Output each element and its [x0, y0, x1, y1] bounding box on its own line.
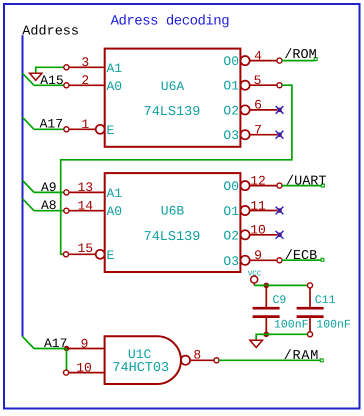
svg-text:9: 9 — [81, 336, 89, 351]
wire A8 — [34, 210, 64, 212]
svg-text:14: 14 — [77, 199, 93, 214]
svg-text:O2: O2 — [223, 228, 239, 243]
junction VCC C9 — [264, 283, 270, 289]
op-amp U6B body — [105, 173, 241, 272]
svg-text:15: 15 — [77, 241, 93, 256]
wire ground rail — [256, 334, 307, 340]
ground symbol GND2 — [250, 340, 263, 347]
svg-text:C9: C9 — [273, 294, 287, 307]
wire A15 — [34, 84, 64, 86]
svg-text:A17: A17 — [40, 116, 63, 131]
svg-text:A8: A8 — [41, 198, 57, 213]
svg-text:A0: A0 — [107, 204, 123, 219]
svg-text:/UART: /UART — [286, 174, 327, 189]
svg-text:E: E — [107, 123, 115, 138]
U6B pin 13 — [69, 191, 105, 193]
svg-text:4: 4 — [254, 48, 262, 63]
svg-text:100nF: 100nF — [274, 318, 309, 331]
svg-text:U6B: U6B — [161, 204, 185, 219]
svg-text:A9: A9 — [41, 180, 57, 195]
wire O1 U6A to E U6B — [61, 85, 292, 254]
U6A pin 4 O0 — [241, 56, 250, 65]
bus entry A17 bottom — [23, 337, 35, 349]
no-connect pin 7 — [276, 131, 284, 139]
svg-text:6: 6 — [254, 98, 262, 113]
U6B pin 14 — [69, 210, 105, 212]
svg-text:9: 9 — [254, 248, 262, 263]
op-amp U1C body — [105, 336, 181, 384]
svg-text:/ROM: /ROM — [284, 48, 316, 63]
svg-text:O3: O3 — [223, 128, 239, 143]
capacitor C11 — [307, 283, 312, 288]
svg-text:10: 10 — [76, 360, 92, 375]
svg-text:A15: A15 — [40, 73, 63, 88]
bus Address — [22, 35, 24, 336]
U6B pin 9 O3 — [241, 256, 250, 265]
wire /UART — [282, 185, 321, 187]
svg-text:1: 1 — [81, 117, 89, 132]
no-connect pin 10 — [276, 231, 284, 239]
svg-text:11: 11 — [250, 198, 266, 213]
svg-text:/ECB: /ECB — [285, 249, 317, 264]
wire VCC rail — [254, 284, 307, 286]
svg-text:U6A: U6A — [161, 79, 185, 94]
svg-text:2: 2 — [81, 73, 89, 88]
U6A pin 6 O2 — [241, 105, 250, 114]
wire pin3 U6A to ground — [36, 67, 64, 73]
bus entry A17 — [23, 117, 35, 129]
svg-text:U1C: U1C — [128, 347, 152, 362]
U6B pin 12 O0 — [241, 181, 250, 190]
svg-text:A1: A1 — [107, 61, 123, 76]
svg-text:3: 3 — [81, 55, 89, 70]
svg-text:E: E — [107, 248, 115, 263]
no-connect pin 6 — [276, 106, 284, 114]
svg-text:O0: O0 — [223, 179, 239, 194]
wire A17 bottom — [34, 348, 63, 350]
U6A pin 1 E — [69, 128, 96, 130]
ground symbol GND1 — [30, 73, 42, 80]
svg-text:12: 12 — [250, 173, 266, 188]
svg-text:74LS139: 74LS139 — [144, 105, 201, 120]
bus entry A9 — [23, 180, 35, 192]
svg-text:100nF: 100nF — [316, 318, 351, 331]
svg-text:13: 13 — [77, 180, 93, 195]
svg-text:74HCT03: 74HCT03 — [112, 361, 169, 376]
U6A pin 5 O1 — [241, 81, 250, 90]
wire junction to pin10 — [66, 349, 68, 371]
U6A pin 2 — [69, 84, 105, 86]
capacitor C9 — [265, 285, 267, 307]
U6B pin 15 E — [69, 253, 96, 255]
svg-text:Address: Address — [22, 24, 79, 39]
wire /ROM — [282, 60, 315, 62]
wire /RAM — [219, 359, 320, 361]
U1C pin 8 — [190, 359, 214, 361]
wire A17 — [34, 128, 64, 130]
U1C output bubble — [181, 356, 190, 365]
bus entry A8 — [23, 199, 35, 211]
svg-text:Adress decoding: Adress decoding — [111, 13, 230, 29]
wire A9 — [34, 191, 64, 193]
svg-text:7: 7 — [254, 123, 262, 138]
transistor U1C pin 10 — [69, 372, 105, 374]
svg-text:O3: O3 — [223, 254, 239, 269]
svg-text:5: 5 — [254, 73, 262, 88]
svg-text:A1: A1 — [107, 186, 123, 201]
svg-text:C11: C11 — [315, 294, 336, 307]
junction C9 ground — [264, 332, 270, 338]
svg-text:74LS139: 74LS139 — [144, 230, 201, 245]
svg-text:O2: O2 — [223, 103, 239, 118]
svg-text:/RAM: /RAM — [284, 349, 320, 364]
U6B pin 10 O2 — [241, 230, 250, 239]
svg-text:VCC: VCC — [248, 270, 262, 279]
svg-text:O1: O1 — [223, 204, 239, 219]
svg-text:10: 10 — [250, 223, 266, 238]
U6A pin 3 — [69, 66, 105, 68]
transistor U1C pin 9 — [69, 348, 105, 350]
U6A pin 7 O3 — [241, 130, 250, 139]
op-amp U6A body — [105, 49, 241, 147]
wire /ECB — [282, 259, 321, 261]
svg-text:8: 8 — [193, 348, 201, 363]
junction A17 pin9 — [64, 346, 70, 352]
no-connect pin 11 — [276, 207, 284, 215]
U6B pin 11 O1 — [241, 206, 250, 215]
bus entry A15 — [23, 73, 35, 85]
svg-text:O0: O0 — [223, 54, 239, 69]
svg-text:O1: O1 — [223, 79, 239, 94]
svg-text:A0: A0 — [107, 79, 123, 94]
